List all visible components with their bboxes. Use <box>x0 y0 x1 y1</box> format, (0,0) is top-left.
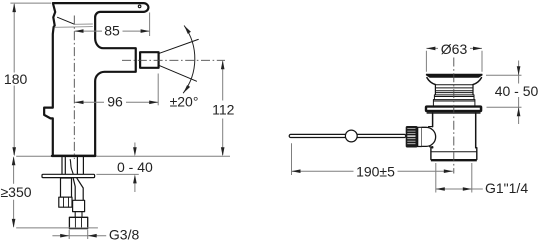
dim G1 1/4 ext lines <box>436 163 472 193</box>
dim 190 line <box>292 170 453 172</box>
svg-text:190±5: 190±5 <box>356 164 395 180</box>
drain rim plate <box>426 74 482 77</box>
dim G3/8 ext lines <box>69 230 88 239</box>
dim G3/8 line <box>52 235 106 237</box>
deck line right <box>96 155 230 157</box>
svg-text:40 - 50: 40 - 50 <box>495 83 539 99</box>
drain knurled nut <box>406 126 418 148</box>
swivel fan lower line <box>160 66 197 82</box>
dim 0-40 ref line <box>96 173 138 175</box>
drain boss steps <box>429 127 433 147</box>
dim 96 line <box>75 101 159 103</box>
arc arrow bottom <box>183 85 190 93</box>
hose curve above flange <box>70 160 73 175</box>
drain ring step 2 <box>434 95 474 100</box>
svg-text:G1"1/4: G1"1/4 <box>485 180 528 196</box>
dim Ø63 line <box>426 47 482 49</box>
dim 180 line <box>13 4 15 155</box>
swivel arc <box>183 26 195 94</box>
drain waist sides <box>435 85 473 95</box>
drain funnel left <box>427 78 436 85</box>
dim 40-50 ref bottom <box>487 106 522 108</box>
stud sleeve below flange <box>61 178 72 197</box>
drain body walls <box>433 113 476 148</box>
svg-text:G3/8: G3/8 <box>109 226 140 241</box>
aerator <box>140 52 159 68</box>
spout centerline <box>122 59 225 61</box>
hose collar <box>73 200 85 211</box>
dim 180 ref top <box>10 2 51 4</box>
drain funnel right <box>473 78 482 85</box>
drain bottom edge <box>431 159 477 161</box>
dim 0-40 top arrow <box>134 143 136 149</box>
drain ring step 3 <box>433 100 475 106</box>
drain pull rod <box>289 134 406 137</box>
drain rod ball <box>345 130 357 142</box>
svg-text:96: 96 <box>107 93 123 109</box>
faucet centerline <box>73 16 75 160</box>
hose below flange <box>73 178 83 200</box>
arc arrow top <box>184 26 191 34</box>
drain centerline <box>453 58 455 174</box>
dim 40-50 line <box>518 61 520 125</box>
dim Ø63 ext lines <box>426 51 482 72</box>
dim 190 ext line <box>291 143 293 175</box>
supply tube <box>77 157 83 174</box>
seam gray lines <box>55 26 75 28</box>
drain bottom cup <box>431 148 477 160</box>
G3/8 nut <box>69 217 87 228</box>
handle dot <box>138 5 141 8</box>
dim 40-50 ref top <box>486 74 522 76</box>
svg-text:0 - 40: 0 - 40 <box>117 159 153 175</box>
mounting flange <box>42 174 95 177</box>
handle/body seam diagonal <box>58 17 75 24</box>
drain boss dome <box>422 127 436 146</box>
svg-text:112: 112 <box>212 102 235 118</box>
drain flange lip <box>427 112 481 114</box>
dim 96 ext <box>157 74 159 106</box>
svg-text:85: 85 <box>104 23 120 39</box>
faucet body and lever silhouette <box>44 3 148 156</box>
drain clamp flange <box>425 105 483 112</box>
dim 112 line <box>222 61 224 155</box>
deck line left <box>16 155 51 157</box>
swivel fan upper line <box>160 39 199 53</box>
svg-text:180: 180 <box>4 71 28 87</box>
dim 85 line <box>75 30 150 32</box>
hose neck <box>75 212 82 218</box>
stud nut <box>59 197 72 207</box>
svg-text:±20°: ±20° <box>170 93 199 109</box>
dim 85 ext <box>149 13 151 37</box>
svg-text:≥350: ≥350 <box>0 184 31 200</box>
drain cup seam <box>431 151 477 153</box>
dim 0-40 bottom arrow <box>134 183 136 192</box>
dim >=350 line <box>13 157 15 226</box>
drain waist rings <box>435 85 473 93</box>
svg-text:Ø63: Ø63 <box>441 41 468 57</box>
dim >=350 ref bottom <box>16 227 98 229</box>
body base thick <box>52 155 95 157</box>
dim G1 1/4 line <box>436 188 483 190</box>
drain nut collar <box>418 127 422 146</box>
mounting stud tube <box>62 157 65 174</box>
